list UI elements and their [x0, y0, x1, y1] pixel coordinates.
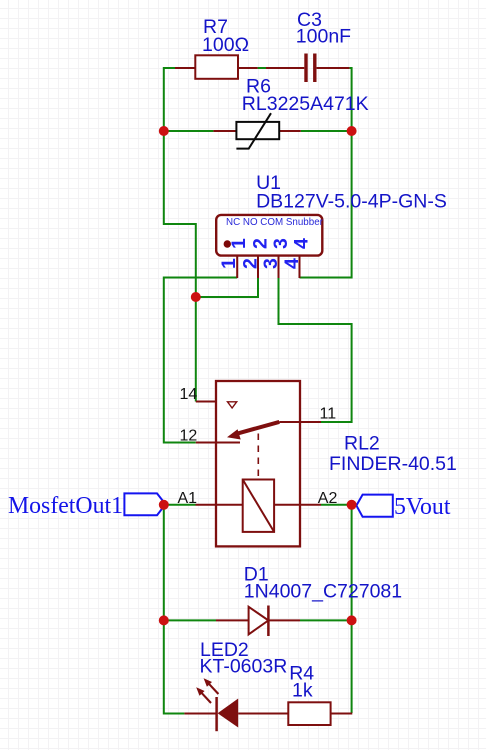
- svg-text:KT-0603R: KT-0603R: [200, 655, 288, 677]
- LED LED2: [184, 697, 288, 731]
- svg-text:4: 4: [281, 258, 303, 269]
- svg-text:1: 1: [228, 238, 250, 249]
- wire D1 row right: [300, 619, 352, 621]
- relay pin 11 stub: [279, 421, 321, 423]
- wire U1 pin 2 branch to junction: [196, 278, 258, 298]
- relay coil box: [243, 480, 274, 532]
- svg-text:1: 1: [218, 258, 240, 269]
- relay actuator dashed link: [257, 434, 259, 480]
- varistor R6: [213, 113, 300, 148]
- svg-text:12: 12: [180, 428, 198, 445]
- svg-text:100nF: 100nF: [296, 26, 351, 48]
- svg-text:NC NO COM Snubber: NC NO COM Snubber: [226, 217, 324, 228]
- svg-text:A1: A1: [178, 490, 198, 507]
- svg-text:100Ω: 100Ω: [202, 34, 249, 56]
- wire A1 flag to relay: [165, 504, 196, 506]
- net flag MosfetOut1: [124, 493, 165, 515]
- svg-text:MosfetOut1: MosfetOut1: [8, 493, 123, 519]
- LED2 emission arrow upper: [204, 678, 219, 694]
- wire top-right corner down to R6 row: [349, 68, 351, 131]
- resistor R4: [288, 702, 352, 725]
- svg-text:4: 4: [291, 238, 313, 249]
- junction D1 left: [159, 615, 169, 625]
- wire right rail down to U1 pin 4: [300, 131, 352, 278]
- LED2 emission arrow lower: [196, 687, 211, 703]
- wire left rail lower: [164, 505, 185, 714]
- svg-text:2: 2: [249, 238, 271, 249]
- svg-text:2: 2: [239, 258, 261, 269]
- relay NC contact triangle: [228, 402, 237, 408]
- resistor R7: [175, 55, 258, 79]
- wire top-left horizontal: [164, 67, 175, 69]
- relay pin A1 stub: [196, 504, 243, 506]
- wire R6 row right: [301, 130, 352, 132]
- junction A2: [347, 500, 357, 510]
- svg-text:DB127V-5.0-4P-GN-S: DB127V-5.0-4P-GN-S: [256, 191, 447, 213]
- svg-text:1k: 1k: [292, 679, 313, 701]
- relay switch arm arrowhead: [227, 429, 241, 439]
- relay RL2: [196, 381, 322, 546]
- wire A2 to right rail: [321, 504, 352, 506]
- relay pin 14 stub: [196, 401, 216, 403]
- svg-text:14: 14: [180, 386, 198, 403]
- svg-text:A2: A2: [318, 490, 338, 507]
- svg-text:11: 11: [320, 405, 337, 422]
- wire between R7 and C3: [258, 67, 266, 69]
- wire D1 row left: [164, 619, 216, 621]
- snubber module U1: [216, 215, 322, 278]
- wire left rail upper vertical: [163, 67, 165, 131]
- wire R6 row left: [164, 130, 214, 132]
- capacitor C3: [266, 54, 349, 83]
- diode D1: [216, 606, 300, 637]
- svg-text:RL2: RL2: [344, 433, 380, 455]
- junction R6 row left: [159, 126, 169, 136]
- relay coil diagonal: [243, 480, 274, 532]
- wire left rail jog down to relay pin 14: [164, 131, 196, 402]
- svg-text:3: 3: [270, 238, 292, 249]
- net flag 5Vout: [356, 495, 392, 517]
- svg-text:FINDER-40.51: FINDER-40.51: [329, 453, 457, 475]
- wire U1 pin 1 to relay pin 12: [164, 278, 237, 443]
- junction U1 pin2 branch: [191, 292, 201, 302]
- U1 pin 1 marker dot: [224, 240, 231, 247]
- svg-text:RL3225A471K: RL3225A471K: [242, 93, 369, 115]
- relay switch arm: [236, 422, 279, 434]
- junction D1 right: [347, 615, 357, 625]
- wire right rail lower: [351, 505, 353, 713]
- svg-text:5Vout: 5Vout: [394, 494, 451, 520]
- relay pin A2 stub: [274, 504, 321, 506]
- junction R6 row right: [347, 126, 357, 136]
- relay pin 12 stub: [196, 442, 240, 444]
- svg-text:3: 3: [260, 258, 282, 269]
- junction A1: [159, 500, 169, 510]
- svg-text:1N4007_C727081: 1N4007_C727081: [244, 581, 402, 603]
- wire U1 pin 3 to relay pin 11: [279, 278, 352, 423]
